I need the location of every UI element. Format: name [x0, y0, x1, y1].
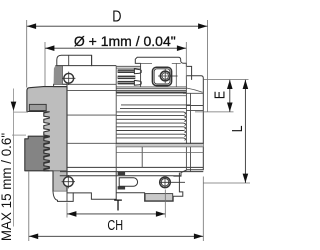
dimension E extension top: [204, 79, 249, 81]
bottom latch lower outline: [116, 173, 183, 202]
collar stripe lines: [116, 87, 186, 91]
collar bottom line: [116, 95, 186, 97]
bottom right foot gray bar: [145, 194, 173, 201]
dimension MAX ref line top: [14, 111, 29, 113]
dimension E arrow bottom: [227, 103, 233, 112]
mid dark line: [116, 142, 203, 144]
dimension L arrow bottom: [243, 174, 249, 183]
dimension CH extension left: [28, 171, 30, 241]
svg-text:E: E: [211, 91, 227, 99]
hook inner vertical: [66, 193, 68, 202]
bottom latch slot oval: [119, 178, 137, 186]
dimension MAX line vertical: [13, 89, 15, 227]
dimension E extension bottom: [195, 111, 234, 113]
dimension CH line: [29, 235, 204, 237]
coil line 7: [117, 134, 186, 136]
dimension MAX ref line bottom: [12, 134, 26, 136]
dimension diameter extension right: [185, 42, 187, 80]
bottom pin circle right outer: [160, 177, 171, 188]
rib bar2 white slit: [118, 76, 135, 78]
bottom pin left cross: [62, 175, 75, 188]
dimension T arrow right: [156, 211, 165, 217]
top flange pin circle: [64, 73, 74, 83]
dimension T extension left: [66, 203, 68, 218]
dimension diameter arrow right: [177, 45, 186, 51]
dimension E line: [229, 80, 231, 112]
top rib bar1 head: [134, 69, 141, 74]
top rib bar 2: [118, 76, 136, 80]
dimension T line: [67, 213, 165, 215]
rib bar3 white slit: [118, 82, 134, 84]
dimension diameter line: [45, 47, 186, 49]
bottom latch teeth 2: [118, 186, 126, 189]
dimension diameter arrow left: [45, 45, 54, 51]
dimension L extension bottom: [204, 182, 251, 184]
bottom latch teeth 1: [118, 172, 126, 175]
bottom left foot: [73, 172, 116, 200]
body top edge: [92, 55, 117, 65]
coil line 8: [117, 138, 186, 140]
body lower lines: [60, 167, 204, 175]
pin circle outer: [160, 71, 170, 81]
dimension L line: [244, 80, 246, 183]
dimension CH extension right: [202, 177, 204, 242]
svg-text:T: T: [114, 198, 122, 215]
flange top tab white: [57, 55, 92, 65]
coil line 4: [117, 123, 186, 125]
top rib bar 1: [118, 69, 135, 73]
dimension diameter extension left: [44, 42, 46, 86]
dimension T extension right: [164, 190, 166, 218]
pin circle inner: [162, 73, 169, 80]
svg-text:L: L: [229, 125, 245, 132]
collar dark band: [116, 92, 186, 94]
conduit ferrule dark bar: [29, 104, 46, 110]
pin cross: [158, 69, 172, 83]
dimension MAX arrow down: [11, 102, 17, 111]
coil line 1: [117, 112, 186, 114]
dimension D arrow left: [27, 23, 36, 29]
coil line 6: [117, 131, 186, 133]
dimension CH arrow right: [194, 234, 203, 240]
dimension L arrow top: [243, 80, 249, 89]
dimension T arrow left: [67, 211, 76, 217]
top rib bar3 head: [134, 80, 141, 85]
flange dark bar fill: [54, 66, 63, 85]
bottom pin right cross: [159, 176, 185, 188]
dimension D arrow right: [198, 23, 207, 29]
dimension D line: [27, 25, 208, 27]
bottom pin circle right inner: [161, 179, 169, 187]
mid gray strip: [116, 144, 203, 147]
lower white band divider: [141, 147, 143, 168]
right cap outline: [173, 76, 203, 176]
flange dark bar: [54, 66, 67, 87]
top ribbed zone thin lines: [117, 66, 141, 68]
conduit dark block: [25, 136, 50, 171]
pin leader line: [170, 75, 178, 77]
svg-text:CH: CH: [107, 216, 123, 233]
latch housing inner: [154, 69, 170, 84]
latch left edge: [140, 63, 142, 87]
latch block outline: [135, 57, 191, 80]
left section surface lines: [62, 84, 116, 143]
top flange pin cross: [62, 72, 75, 85]
cap vertical lines: [186, 76, 190, 172]
dimension D extension left: [26, 20, 28, 88]
conduit gray slab (tube end + flange body): [27, 87, 67, 192]
svg-text:Ø + 1mm / 0.04": Ø + 1mm / 0.04": [74, 33, 176, 49]
rib bar1 white slit: [118, 70, 134, 72]
dimension D extension right: [207, 20, 209, 112]
coil line 5: [117, 127, 186, 129]
top rib bar 3: [118, 81, 135, 85]
svg-text:MAX 15 mm / 0.6": MAX 15 mm / 0.6": [0, 133, 14, 241]
latch housing outer: [152, 67, 171, 85]
left chamber divider: [115, 66, 117, 172]
collar taper curve: [186, 88, 202, 92]
bottom hook outline: [53, 191, 73, 201]
tab divider: [68, 55, 70, 65]
svg-text:D: D: [112, 8, 121, 26]
coil top lines: [120, 105, 190, 109]
dimension E arrow top: [227, 80, 233, 89]
coil line 3: [117, 119, 186, 121]
latch block inner line: [135, 63, 180, 87]
cap internal lines: [183, 93, 203, 110]
mid strip bottom line: [116, 146, 203, 148]
lower band mid line: [116, 152, 203, 154]
coil line 2: [117, 116, 186, 118]
dimension CH arrow left: [29, 234, 38, 240]
block bottom line through slab: [49, 170, 67, 172]
bottom pin circle left: [63, 177, 73, 187]
